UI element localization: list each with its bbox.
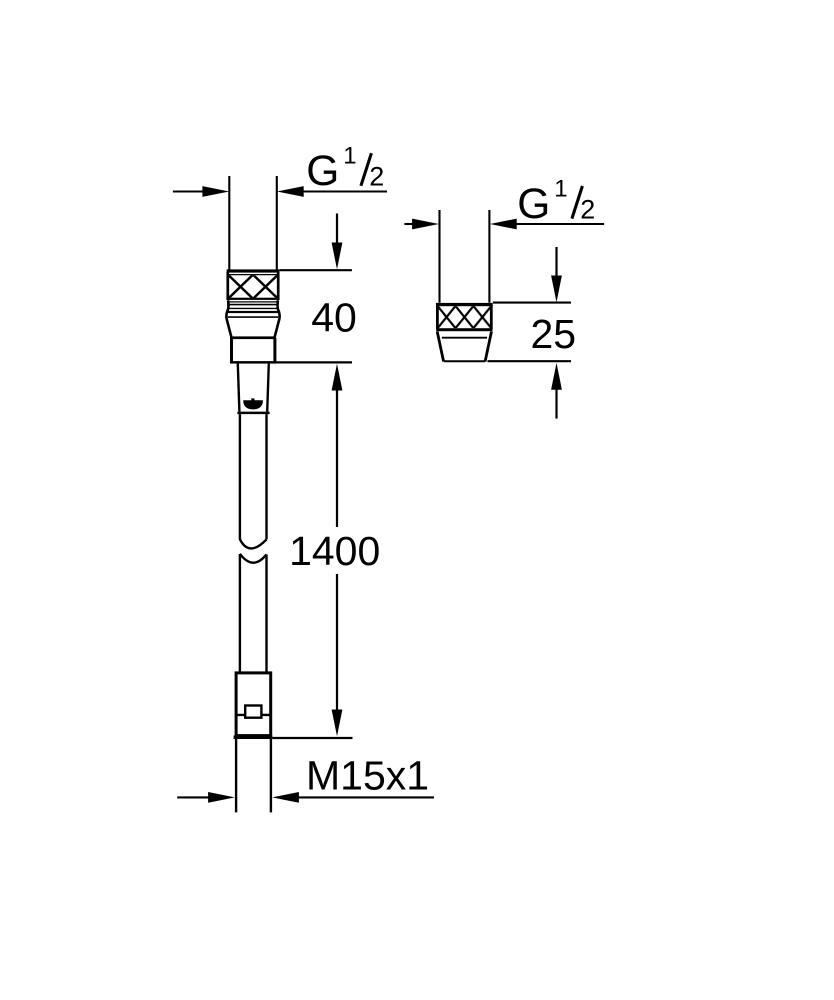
- right drawing: extension line left: [438, 210, 440, 303]
- dimension line 1400 upper segment: [336, 390, 338, 527]
- arrowhead 25 top (down): [551, 276, 562, 303]
- arrowhead 1400 bottom (down): [332, 710, 343, 737]
- right nut bottom line: [444, 360, 485, 362]
- nut knurl band sides: [226, 272, 229, 300]
- nut knurl band bottom thick line: [227, 298, 280, 300]
- svg-text:M15x1: M15x1: [306, 753, 429, 799]
- right drawing: extension line right: [488, 210, 490, 303]
- dimension line M15x1 right segment: [299, 796, 434, 798]
- dimension line G1/2 left segment: [173, 190, 204, 192]
- dimension line 25 upper segment: [555, 247, 557, 276]
- right nut trapezoid sides: [437, 331, 443, 361]
- right arrowhead G1/2 left: [412, 219, 439, 230]
- nut ridge line 1: [228, 301, 277, 303]
- hose break upper curve: [240, 539, 267, 548]
- right extension line at nut bottom (25 dim): [488, 360, 572, 362]
- right nut knurl band sides: [436, 305, 439, 329]
- right dimension line G1/2 left segment: [404, 223, 413, 225]
- cylinder bottom line: [230, 361, 276, 364]
- svg-text:40: 40: [311, 294, 357, 340]
- right dimension line G1/2 right segment: [517, 223, 605, 225]
- dimension line M15x1 left segment: [177, 796, 209, 798]
- arrowhead G1/2 left: [202, 186, 229, 197]
- right extension line at nut top (25 dim): [493, 302, 571, 304]
- svg-text:1: 1: [343, 143, 356, 170]
- extension line at lower connector bottom (1400 dim): [272, 737, 352, 739]
- label G1/2 (right drawing): [517, 175, 595, 228]
- hose upper cone sides: [238, 364, 240, 412]
- logo blob on hose: [243, 398, 263, 409]
- cylinder sides: [230, 338, 233, 362]
- svg-text:2: 2: [580, 195, 595, 225]
- extension line left (top G1/2 dim): [228, 176, 230, 270]
- bottom connector small square: [245, 706, 261, 718]
- extension line right (top G1/2 dim): [276, 176, 278, 270]
- extension line at nut top (40 dim): [280, 269, 352, 271]
- svg-text:G: G: [306, 148, 339, 195]
- dimension line G1/2 right segment: [304, 190, 388, 192]
- nut bulge lower line: [228, 316, 278, 318]
- cone bottom thick line: [230, 336, 276, 339]
- right nut inner line: [442, 337, 487, 339]
- svg-text:G: G: [517, 181, 550, 228]
- hose upper cone bottom line: [237, 412, 269, 415]
- bottom connector thick bottom edge: [234, 735, 273, 739]
- right arrowhead G1/2 right: [490, 219, 517, 230]
- hose upper section sides: [239, 414, 241, 539]
- right nut knurl band bottom thick line: [436, 328, 492, 331]
- bottom connector outline: [236, 673, 271, 736]
- arrowhead 25 bottom (up): [551, 363, 562, 390]
- bottom connector inner line: [237, 714, 270, 716]
- extension line at connector bottom (40 dim): [276, 361, 352, 363]
- nut knurl crosshatch: [228, 275, 277, 298]
- svg-text:1: 1: [554, 175, 567, 202]
- nut ridge line 2: [229, 304, 278, 306]
- nut ridge line 3: [229, 307, 277, 309]
- arrowhead 40 bottom / 1400 top (up): [332, 364, 343, 391]
- nut ridge thick line: [227, 311, 279, 313]
- right nut: thick top band: [436, 303, 493, 306]
- arrowhead G1/2 right: [277, 186, 304, 197]
- arrowhead M15x1 right: [272, 792, 299, 803]
- label G1/2 (left drawing): [306, 143, 384, 196]
- nut bulge sides: [226, 300, 228, 318]
- dimension line 1400 lower segment: [336, 574, 338, 710]
- arrowhead M15x1 left: [208, 792, 235, 803]
- right nut knurl crosshatch: [438, 306, 491, 328]
- svg-text:1400: 1400: [289, 528, 380, 574]
- hose lower section sides: [239, 554, 241, 672]
- dimension line 40 upper segment: [336, 214, 338, 244]
- top connector nut: thick top band: [227, 269, 280, 272]
- threaded end sides (M15x1): [235, 739, 237, 812]
- nut thin line under top band: [228, 274, 279, 276]
- arrowhead 40 top (down): [332, 243, 343, 270]
- hose break lower curve: [240, 554, 267, 563]
- cone sides: [226, 318, 231, 337]
- svg-text:2: 2: [369, 162, 384, 192]
- dimension line 25 lower segment: [555, 389, 557, 418]
- svg-text:25: 25: [530, 311, 576, 357]
